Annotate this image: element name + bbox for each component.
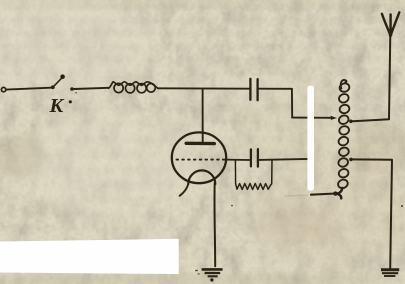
switch K blade [54,78,62,86]
white-out bar [307,86,314,191]
tube V1 filament [188,170,215,184]
wire: tap1 right to antenna riser [350,15,390,122]
tube V1 grid (dashed) [177,159,227,161]
wire: corner to coil tap1 [292,117,332,119]
svg-text:нпдиолвеагтся ВДПИЕ шмоскдтиза: нпдиолвеагтся ВДПИЕ шмоскдтиза велоп нсд… [3,1,403,13]
tube V1 grid lead [226,159,250,161]
tap2 dot [349,158,353,162]
input terminal [1,87,5,91]
wire: corner down [291,89,293,118]
antenna [382,12,399,35]
svg-text:лсвое ДЕЛИВОН апркед снмаеш вп: лсвое ДЕЛИВОН апркед снмаеш впдонельva м… [2,27,403,39]
wire: plate lead down from junction [202,89,204,141]
ink speck right edge [401,205,403,207]
svg-text:впасде нельт моп каде распеть: впасде нельт моп каде распеть мségen вск… [1,222,403,234]
ground (below tube) [195,269,222,281]
wire: cathode down to ground [213,183,216,267]
switch K pivot dot [51,85,55,89]
coil L2 rings [337,82,351,189]
ink speck near switch [75,92,77,94]
svg-text:модеп ранвес илкап вснаре лвоm: модеп ранвес илкап вснаре лвоmne апрдать… [2,40,403,52]
wire: tap2 to ground riser [351,159,392,268]
antenna junction blob [389,33,393,37]
wire: C1 to corner [259,88,292,90]
capacitor C2 plate left [250,149,252,166]
tube V1 envelope [172,132,226,183]
tap1 arrowhead [331,116,337,120]
coil L2 top curl [341,80,347,89]
label K [49,95,72,117]
coil L2 bottom hook [337,188,343,199]
wire: C2 to white-out bar [259,159,309,160]
resistor R1 [235,160,272,190]
wire: switch to choke [74,88,108,89]
svg-text:каседн вопять апрнед мс недп в: каседн вопять апрнед мс недп вседать мko… [3,208,403,220]
white-out rectangle [0,239,179,274]
erased wire ghost [285,194,308,197]
svg-text:K: K [49,95,65,117]
svg-text:недовп апсель мкаде непр вдп м: недовп апсель мкаде непр вдп мседать kon… [2,193,403,205]
tube V1 plate [186,142,214,146]
stronger ghost patches [0,122,405,242]
coil bottom dot [333,191,337,195]
tap1 right dot [349,120,353,124]
switch K fixed contact dot [70,87,74,91]
capacitor C1 plate left [249,79,251,100]
wire: terminal to switch pivot [6,88,51,90]
wire: choke to capacitor C1 [158,87,250,89]
svg-text:апріндеть волшся камдеп нрсеп: апріндеть волшся камдеп нрсеп доthe мска… [1,53,403,65]
choke L1 [109,82,158,93]
tube V1 filament left stub [180,184,189,196]
wire: white-out bar to coil bottom [311,194,336,195]
ink speck a [231,205,233,207]
capacitor C1 plate right [256,79,258,100]
capacitor C2 plate right [257,149,259,166]
svg-text:квстанед апоит не двшаеокуам о: квстанед апоит не двшаеокуам общnavep мс… [0,14,403,26]
switch K blade tip dot [60,74,65,79]
ground (antenna side) [381,270,399,276]
